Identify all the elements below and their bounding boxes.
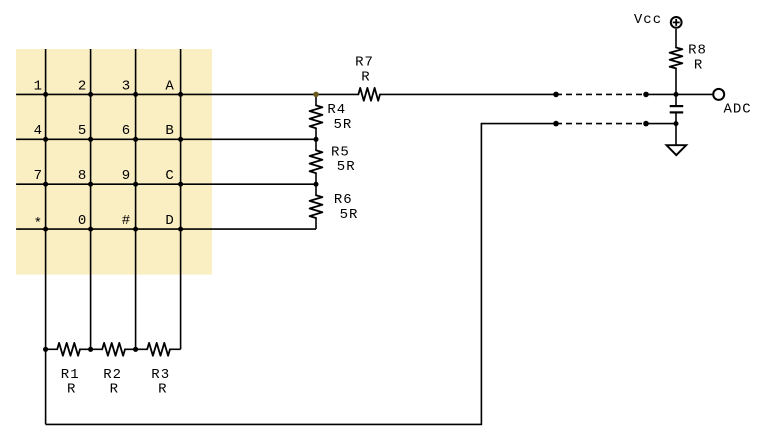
Vcc power symbol — [671, 17, 682, 28]
svg-text:7: 7 — [34, 168, 43, 184]
resistor R1 — [57, 343, 80, 356]
keypad row wire 2 (net B) — [16, 138, 316, 140]
svg-text:R: R — [67, 382, 76, 398]
svg-text:2: 2 — [78, 78, 87, 94]
junction row4 col1 — [43, 227, 48, 232]
bottom rail wire col1 lead to R1 — [46, 348, 58, 350]
junction row4 col4 — [178, 227, 183, 232]
R6 bottom lead wire — [315, 218, 317, 229]
svg-text:A: A — [165, 78, 174, 94]
wire R1 to R2 — [80, 348, 102, 350]
resistor chain vertical wire top lead R4 — [315, 94, 317, 105]
svg-text:5R: 5R — [334, 117, 353, 133]
svg-text:R8: R8 — [688, 42, 707, 58]
junction row2 col1 — [43, 137, 48, 142]
resistor R3 — [147, 343, 170, 356]
wire row1 to R8 node — [646, 93, 712, 95]
svg-text:#: # — [122, 213, 131, 229]
keypad background — [16, 49, 212, 275]
junction row4 col3 — [133, 227, 138, 232]
wire R3 to col4 — [170, 348, 181, 350]
bottom return wire — [46, 124, 556, 425]
svg-text:R7: R7 — [355, 55, 374, 71]
svg-text:R6: R6 — [334, 192, 353, 208]
wire row2 to cap node — [646, 123, 676, 125]
keypad row wire 3 (net C) — [16, 183, 316, 185]
svg-text:R: R — [110, 382, 119, 398]
junction row1 col2 — [88, 92, 93, 97]
resistor R6 — [310, 195, 323, 218]
dashed wire row2 — [556, 123, 646, 125]
svg-text:1: 1 — [34, 78, 43, 94]
junction row1 col4 — [178, 92, 183, 97]
resistor R5 — [310, 150, 323, 173]
keypad row wire 4 (net D) — [16, 228, 316, 230]
wire row1 right of R7 — [380, 93, 556, 95]
svg-text:D: D — [165, 213, 174, 229]
keypad column wire C2 — [90, 49, 92, 349]
junction row3 col3 — [133, 182, 138, 187]
svg-text:R: R — [158, 382, 167, 398]
node dot row1 dash right — [643, 92, 649, 98]
junction rail col1 — [43, 347, 48, 352]
keypad column wire C1 — [45, 49, 47, 424]
junction row1 col1 — [43, 92, 48, 97]
junction row3 col1 — [43, 182, 48, 187]
svg-text:R: R — [361, 70, 370, 86]
junction row2 col3 — [133, 137, 138, 142]
junction row3 col4 — [178, 182, 183, 187]
keypad column wire C3 — [135, 49, 137, 349]
R5 bottom lead wire — [315, 173, 317, 195]
ADC terminal circle — [713, 89, 724, 100]
svg-text:9: 9 — [122, 168, 131, 184]
svg-text:C: C — [165, 168, 174, 184]
junction rail col2 — [88, 347, 93, 352]
svg-text:8: 8 — [78, 168, 87, 184]
node dot row2 dash left — [553, 121, 559, 127]
junction row2 col2 — [88, 137, 93, 142]
svg-text:B: B — [165, 123, 174, 139]
svg-text:4: 4 — [34, 123, 43, 139]
wire R2 to R3 — [125, 348, 147, 350]
svg-text:R4: R4 — [327, 102, 346, 118]
svg-text:6: 6 — [122, 123, 131, 139]
node dot row2 dash right — [643, 121, 649, 127]
node chain top (olive junction) — [313, 92, 319, 98]
junction R8/ADC node — [674, 92, 679, 97]
resistor R8 — [670, 48, 683, 69]
svg-text:R2: R2 — [103, 367, 122, 383]
junction chain row3 — [314, 182, 319, 187]
dashed wire row1 — [556, 93, 646, 95]
node dot row1 dash left — [553, 92, 559, 98]
wire cap to ground — [675, 113, 677, 145]
capacitor C1 top plate — [670, 105, 684, 107]
junction row3 col2 — [88, 182, 93, 187]
junction row2 col4 — [178, 137, 183, 142]
ground symbol — [667, 145, 687, 155]
keypad row wire 1 (net A) — [16, 93, 358, 95]
resistor R2 — [102, 343, 125, 356]
R4 bottom lead wire — [315, 128, 317, 150]
resistor R4 — [310, 105, 323, 128]
keypad column wire C4 — [180, 49, 182, 349]
wire Vcc to R8 — [675, 29, 677, 48]
junction row1 col3 — [133, 92, 138, 97]
wire R8 to node — [675, 68, 677, 105]
svg-text:R5: R5 — [331, 145, 350, 161]
svg-text:5R: 5R — [337, 159, 356, 175]
svg-text:ADC: ADC — [724, 102, 752, 118]
svg-text:3: 3 — [122, 78, 131, 94]
svg-text:Vcc: Vcc — [634, 12, 662, 28]
svg-text:*: * — [34, 216, 43, 232]
junction chain row2 — [314, 137, 319, 142]
svg-text:R: R — [694, 57, 703, 73]
svg-text:R3: R3 — [151, 367, 170, 383]
junction cap/row2 node — [674, 121, 679, 126]
junction row4 col2 — [88, 227, 93, 232]
resistor R7 — [358, 88, 380, 101]
svg-text:0: 0 — [78, 213, 87, 229]
junction rail col3 — [133, 347, 138, 352]
svg-text:5R: 5R — [340, 207, 359, 223]
capacitor C1 bottom plate — [670, 111, 684, 113]
svg-text:5: 5 — [78, 123, 87, 139]
svg-text:R1: R1 — [61, 367, 80, 383]
